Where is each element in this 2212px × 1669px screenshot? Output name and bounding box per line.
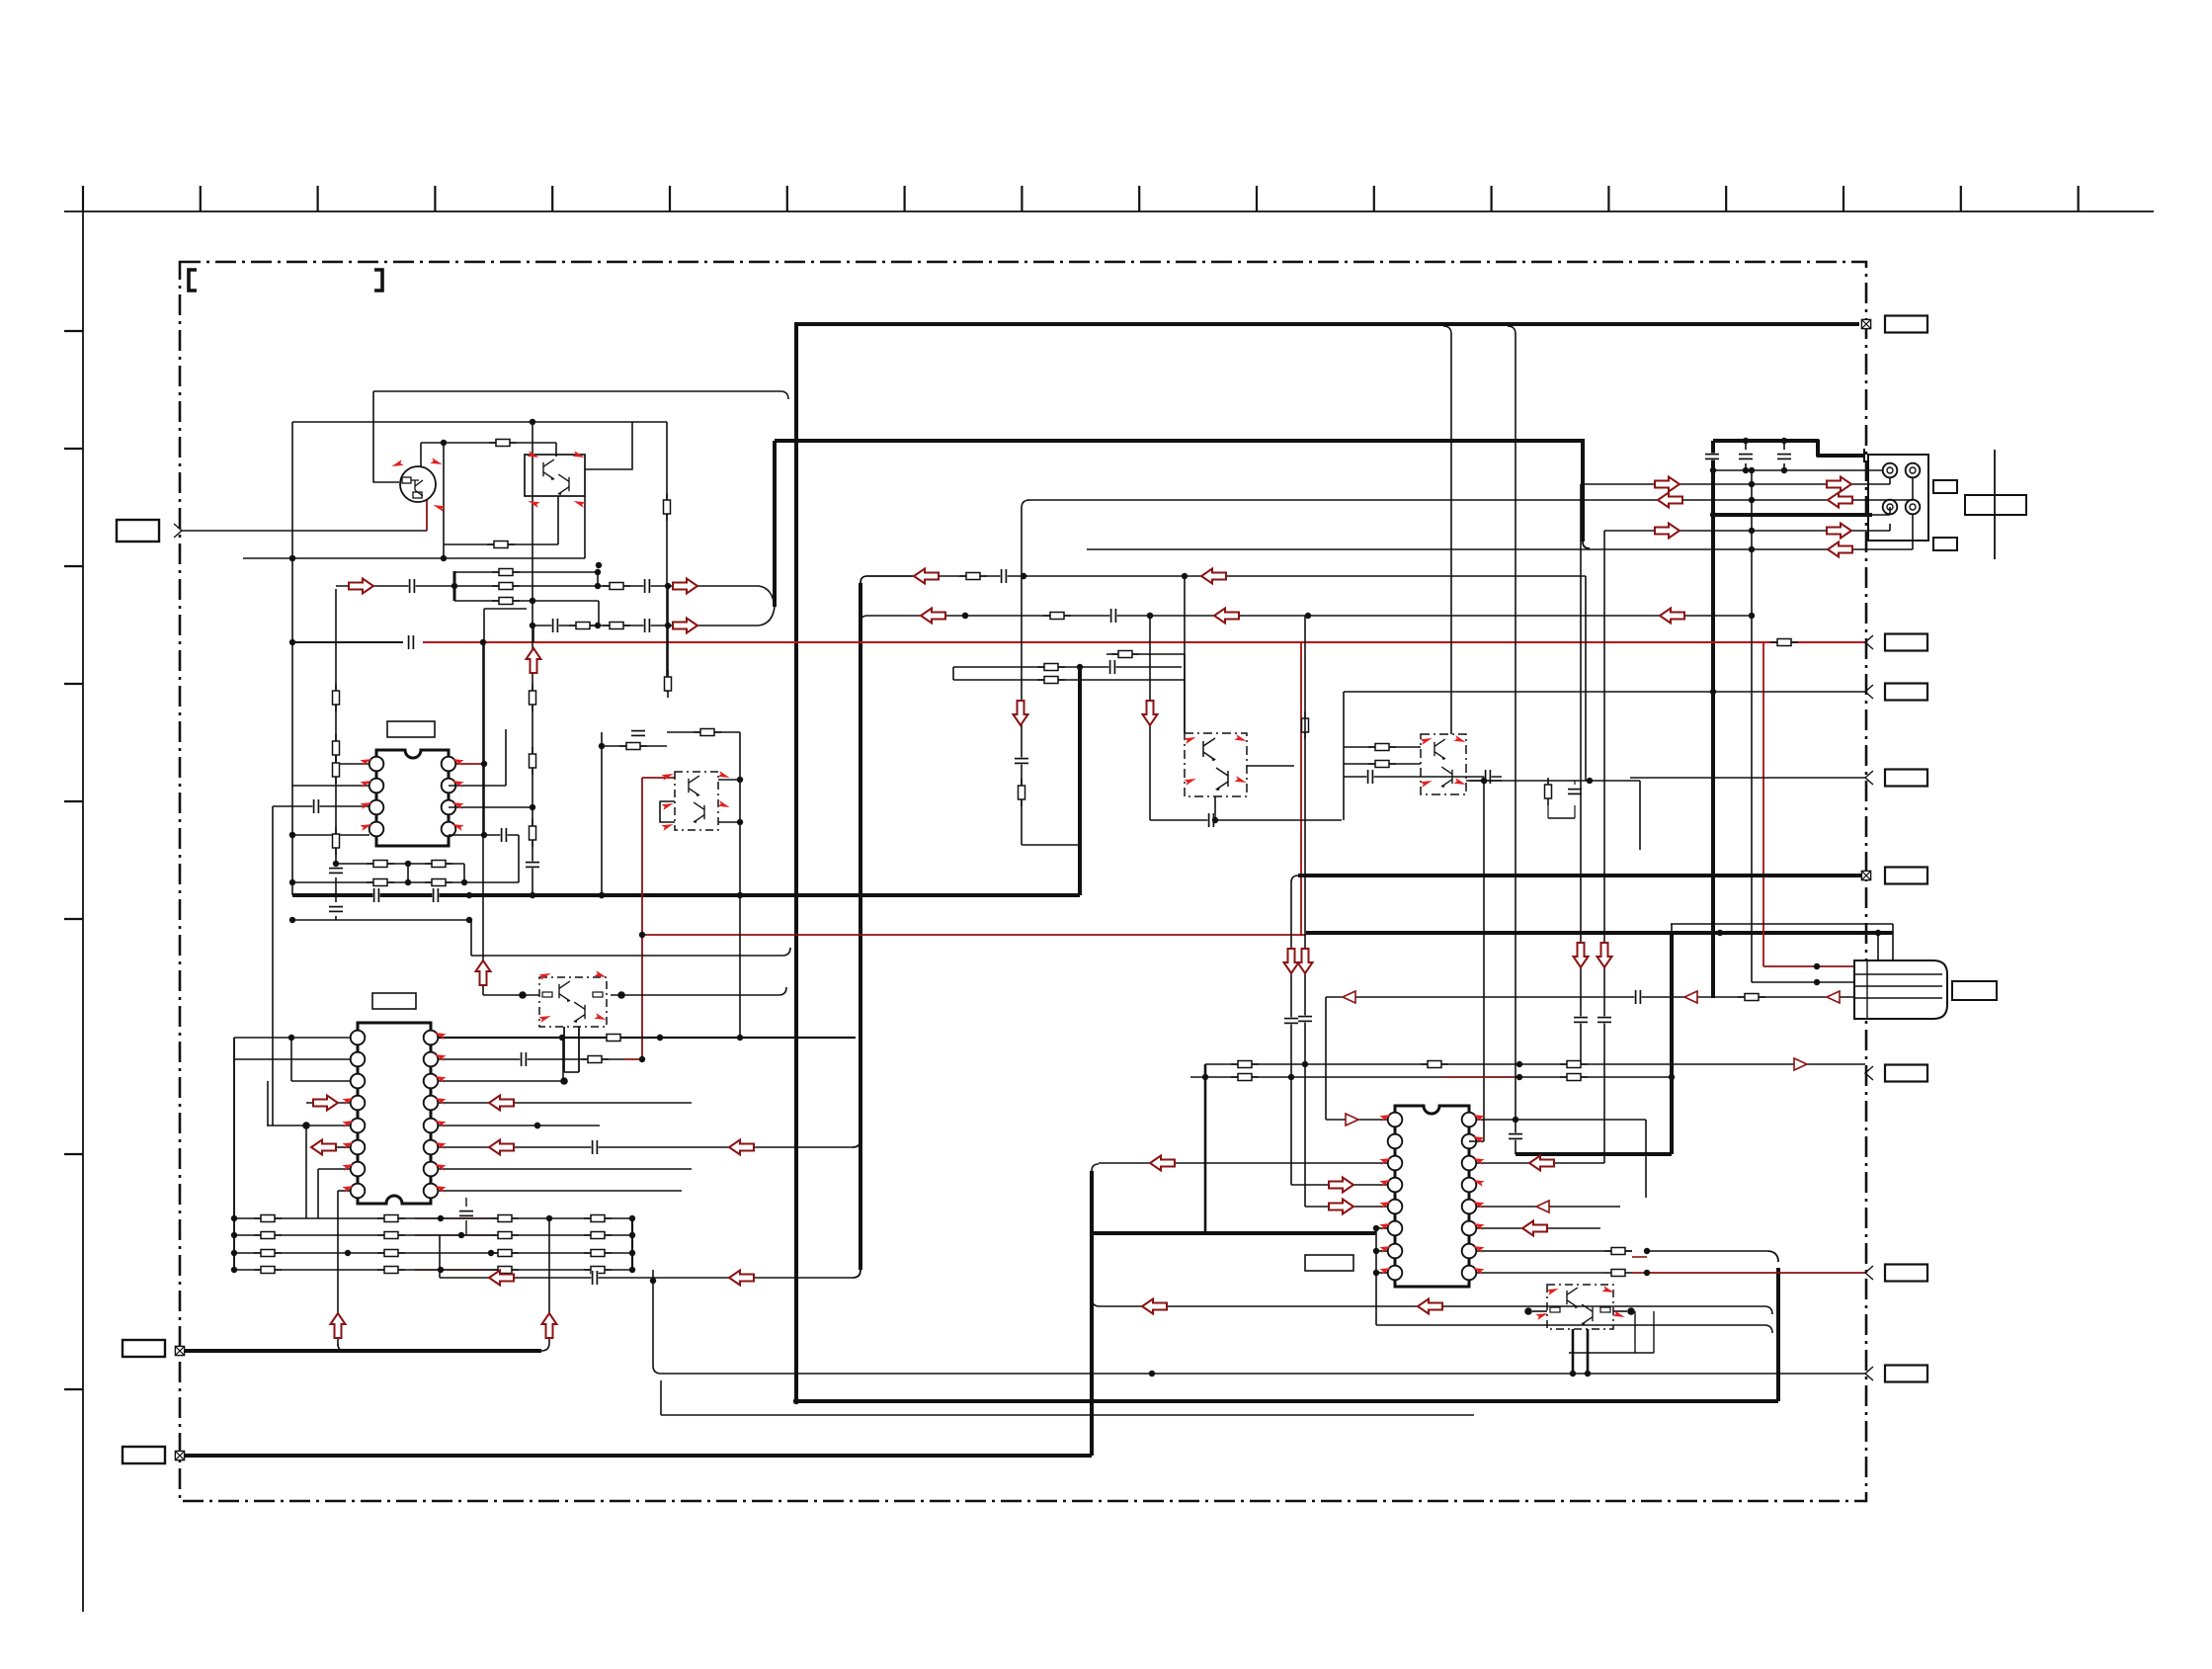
transistor pair Q108/Q109 box dashed (1185, 733, 1247, 796)
ruler top line (64, 210, 2154, 212)
arrow relay 490b (1827, 477, 1851, 492)
arrow row1322 b (1418, 1299, 1442, 1314)
IC201 pin 6 left (351, 1140, 366, 1155)
thick pair emitter drop A (1572, 1329, 1575, 1374)
vertical x1605 (1585, 576, 1587, 781)
ruler tick top (317, 186, 319, 211)
ladder row y1250 (234, 1234, 632, 1236)
wire IC301 pin14 (1476, 1162, 1604, 1164)
Q103 glyph (557, 474, 569, 495)
IC101 pin 7 right (442, 779, 456, 793)
cap bank lead c (1777, 453, 1791, 459)
thick bus wire second (775, 439, 1583, 443)
red pin indicator arrows (451, 756, 463, 766)
IC301 label box (1305, 1255, 1353, 1271)
cap bank lead a (1705, 453, 1719, 459)
vertical x1660 drop (1639, 781, 1641, 850)
motor terminal rail (1866, 960, 1868, 1019)
relay actuator stem (1994, 450, 1996, 559)
wire IC201 pin14 (438, 1080, 564, 1082)
wire IC301 pin3 long (1099, 1162, 1388, 1164)
wire row 755 with resistor (602, 745, 667, 747)
wire row 1369 (1569, 1352, 1654, 1354)
Q112 glyph (1567, 1288, 1579, 1308)
thick wire from CN left to riser (185, 1349, 541, 1353)
dot row1077 a (1302, 1061, 1308, 1067)
arrow up x540 (527, 648, 541, 673)
red stub to transistor pair (642, 777, 675, 779)
wire below bus (292, 919, 469, 921)
wire IC301 pin10 (1476, 1250, 1632, 1252)
arrow relay 506a (1658, 493, 1682, 508)
wire row 1077 to connector (1205, 1063, 1865, 1065)
wire row 830 (1150, 819, 1342, 821)
wire IC101 pin4 left (292, 834, 369, 836)
Q102 glyph (543, 459, 555, 480)
rc pair right of P7 (1469, 780, 1640, 782)
triangle motor row a (1684, 991, 1697, 1003)
Q101 collector wire (420, 443, 422, 466)
wire IC201 pin2 (234, 1058, 351, 1060)
relay row wire 506 long (1027, 499, 1913, 501)
IC201 pin 7 left (351, 1162, 366, 1177)
red stub IC1 pin1 (449, 763, 484, 765)
wire P1 lower loop (484, 608, 527, 610)
wire row 633 (533, 625, 759, 626)
triangle pin1 (1346, 1114, 1358, 1126)
terminal crossbox CN202 (1861, 871, 1870, 879)
red segment row IC2 (624, 1058, 642, 1060)
vertical x749 (739, 732, 741, 1038)
vertical branch x675 (666, 422, 668, 692)
wire IC101 pin7 right (449, 785, 506, 787)
Q101 inner glyph (402, 477, 411, 483)
wire to P7 a (1344, 746, 1421, 748)
wire row2 to border (1344, 691, 1865, 693)
node dots left rail (289, 555, 295, 561)
wire IC301 pin2R (1469, 1140, 1484, 1142)
wire IC201 pin10 (438, 1168, 692, 1170)
wire IC201 pin4 (306, 1102, 351, 1104)
ruler tick top (1607, 186, 1609, 211)
Q113 glyph (1581, 1304, 1593, 1325)
relay lead A (1889, 477, 1891, 484)
transistor pair Q110/Q111 box dashed (1421, 734, 1466, 794)
red vertical trunk mid (641, 778, 643, 1059)
resistor v4 (333, 827, 340, 855)
arrow up x489 (476, 960, 491, 985)
wire row 608 (454, 600, 599, 602)
board label bracket left (189, 270, 197, 291)
connector chevron red row (1865, 635, 1873, 649)
relay lead D (1912, 514, 1914, 549)
motor body (1854, 960, 1947, 1019)
IC101 pin 2 left (369, 779, 384, 793)
wire elbow at trunk B top (860, 576, 927, 583)
ground bus node dots (466, 892, 472, 898)
P6 right wire (611, 987, 786, 995)
thick relay feed step (1713, 441, 1863, 456)
red vertical branch B (1762, 642, 1764, 966)
connector chevron row6 (1865, 1367, 1873, 1380)
relay row wire 490 (1581, 483, 1890, 485)
vertical x570 (562, 1038, 564, 1081)
arrow pin11R (1522, 1221, 1547, 1236)
wire IC301 pin4 (1291, 1184, 1388, 1186)
IC201 pin 11 right (424, 1140, 439, 1155)
ladder row y1285 (234, 1269, 632, 1271)
transistor pair Q104/Q105 box dashed (675, 772, 718, 830)
connector box right R1 (1885, 634, 1927, 651)
thick vertical from ground bus (1078, 665, 1082, 895)
wire y396 horizontal (373, 391, 788, 399)
rail x276 long (272, 806, 274, 1126)
resistor v2 (333, 734, 340, 762)
wire row3 to border (1630, 777, 1865, 779)
wire IC201 pin16 (438, 1037, 856, 1039)
vertical feed motor mid (1751, 470, 1753, 982)
transistor pair Q102/Q103 box (525, 455, 585, 496)
terminal crossbox CN201 (1861, 319, 1870, 328)
arrow row623 right (1660, 609, 1684, 624)
connector terminal crossbox (175, 1451, 184, 1460)
wire IC101 pin8 right up (483, 609, 485, 835)
ruler tick top (1960, 186, 1962, 211)
trunk x1800 top curve (1768, 1251, 1778, 1262)
arrow row583 (914, 569, 939, 584)
thick vertical trunk B (859, 583, 862, 1270)
cap motor row (1634, 990, 1641, 1004)
P3 left dot (1524, 1307, 1532, 1315)
IC301 pin 8 left (1388, 1266, 1403, 1281)
wire row 1322 to trunk (1092, 1298, 1772, 1314)
P7 right side wire (1466, 780, 1502, 782)
red vertical branch A (1300, 642, 1302, 936)
P6 left dot (519, 991, 527, 999)
thick vertical relay trunk (1711, 441, 1715, 998)
IC101 pin 3 left (369, 800, 384, 815)
IC101 pin 8 right (442, 757, 456, 772)
vertical x676 down (667, 586, 669, 692)
thick bus wire top to CN101 (796, 322, 1859, 326)
arrow pin13 (489, 1096, 514, 1111)
vertical x540 down (533, 626, 534, 642)
IC301 pin 14 right (1462, 1156, 1477, 1171)
vertical feed B (1304, 616, 1306, 1207)
Q108 glyph (1203, 738, 1216, 761)
red segment IC3 row a (1632, 1256, 1647, 1258)
ruler tick left (64, 448, 83, 450)
vertical x271 (267, 1081, 269, 1126)
cap below bus (329, 905, 343, 912)
IC301 pin 7 left (1388, 1244, 1403, 1259)
resistor row623 (1043, 613, 1071, 620)
thick bus bottom horizontal (794, 1399, 1778, 1403)
wire row 565 (243, 557, 585, 559)
IC301 pin 12 right (1462, 1200, 1477, 1214)
resistor motor row (1738, 994, 1765, 1001)
Q107 glyph (573, 1002, 585, 1023)
wire IC101 pin2 left (292, 785, 369, 787)
P3 inner res b (1600, 1307, 1610, 1312)
wire row 623 (867, 615, 1752, 617)
thick trunk right x1800 (1776, 1268, 1780, 1401)
IC201 pin 2 left (351, 1052, 366, 1067)
arrow pin3L (1150, 1156, 1175, 1171)
red segment resistor row a (415, 1217, 491, 1219)
vertical pin8 to bus (337, 1191, 339, 1346)
triangle row1077 (1794, 1058, 1807, 1070)
wire IC201 pin8 (338, 1190, 351, 1192)
arrow row 593 right (673, 579, 697, 594)
wire IC101 pin5 right cap (449, 834, 519, 836)
dot row623 b (1147, 613, 1153, 619)
IC301 pin 6 left (1388, 1221, 1403, 1236)
IC301 pin 11 right (1462, 1221, 1477, 1236)
ruler tick top (1725, 186, 1727, 211)
arrow pin6 (311, 1140, 336, 1155)
red wire to connector row (1632, 1272, 1866, 1274)
thin riser to bus (1291, 876, 1298, 936)
Q109 glyph (1215, 768, 1228, 791)
IC201 pin 5 left (351, 1119, 366, 1133)
vertical x609 (601, 732, 603, 895)
connector chevron row3 (1865, 771, 1873, 785)
wire row 675 (953, 666, 1182, 668)
ruler tick left (64, 683, 83, 685)
corner 608 to 633 (598, 601, 600, 626)
wire IC101 pin1 left (336, 763, 369, 765)
resistor v1 (333, 684, 340, 711)
wire row935 elbow (1670, 923, 1672, 925)
vertical x965 (952, 667, 954, 680)
Q106 glyph (559, 981, 571, 1002)
dot row1090 b (1516, 1074, 1522, 1080)
red signal wire long horizontal (423, 641, 1866, 643)
wire x1034 to trunk (1022, 844, 1080, 846)
P2 top right wire (718, 779, 740, 781)
IC301 pin 3 left (1388, 1156, 1403, 1171)
IC301 pin 9 right (1462, 1266, 1477, 1281)
motor row component wire (1326, 996, 1854, 998)
wire IC301 pin9 (1476, 1272, 1604, 1274)
IC101 label box (387, 721, 435, 737)
arrow pin11 b (729, 1140, 754, 1155)
resistor chain vertical (335, 589, 337, 856)
ruler tick left (64, 565, 83, 567)
arrow row583 mid (1201, 569, 1226, 584)
ruler tick top (1021, 186, 1023, 211)
x1034 chain vertical (1021, 508, 1023, 845)
thick bus wire to CN202 (1298, 874, 1861, 877)
arrow pin4L (1329, 1178, 1353, 1193)
red segment resistor row b (415, 1234, 491, 1236)
ladder row y1233 (234, 1217, 632, 1219)
red vertical at Q101 (426, 500, 428, 531)
dot row1390 left (1149, 1371, 1155, 1377)
vertical x1342 (1325, 997, 1327, 1120)
corner pin5 row down (518, 835, 520, 882)
IC301 pin 1 left (1388, 1113, 1403, 1127)
IC201 label box (372, 993, 416, 1009)
P5 right wire (1247, 765, 1294, 767)
vertical red-branch to P6 (482, 642, 484, 995)
Q104 glyph (689, 776, 700, 796)
cap pair on ground bus (372, 888, 379, 902)
motor winding line 3 (1854, 997, 1942, 999)
vertical x310 (305, 1126, 307, 1218)
IC201 pin 16 right (424, 1031, 439, 1045)
arrow up x556 (542, 1313, 557, 1338)
thick ground bus mid-left (292, 893, 1080, 897)
thick wire IC3 pin6 feed (1092, 1231, 1376, 1235)
wire IC201 pin15 (438, 1058, 624, 1060)
arrow row 593 left (349, 579, 373, 594)
cap on x1600 (1574, 1016, 1588, 1023)
Q105 glyph (693, 802, 704, 823)
motor top wire (1671, 923, 1893, 925)
wire P1 bottom leads (557, 496, 559, 544)
IC301 pin 10 right (1462, 1244, 1477, 1259)
wire elbow trunk C top (1092, 1164, 1099, 1171)
thick vertical motor side (1670, 935, 1674, 1154)
IC201 body (358, 1023, 431, 1204)
resistor on x675 (664, 493, 671, 521)
relay terminal B (1906, 463, 1921, 478)
resistor row1077 c (1560, 1061, 1588, 1068)
vertical x1220 (1204, 1064, 1207, 1235)
wire row 551 (444, 543, 558, 545)
resistor row1090 a (1231, 1074, 1259, 1081)
dot row623 a (962, 613, 968, 619)
red wire resistor near border (1770, 639, 1798, 646)
rc pair stubs (1547, 781, 1549, 785)
trunk B bottom curve to row (853, 1270, 860, 1278)
wire IC301 pin12 (1476, 1206, 1620, 1208)
cap on x1624 (1598, 1016, 1611, 1023)
vertical x1393 (1375, 1228, 1377, 1325)
thick vertical to relay rows (1581, 439, 1585, 542)
left rail vertical (291, 422, 293, 895)
relay aux box a (1933, 480, 1957, 493)
P2 left loop (660, 801, 675, 822)
resistor x1034 (1019, 779, 1025, 806)
arrow down x1034 (1014, 701, 1028, 725)
P3 left wire (1532, 1310, 1547, 1312)
vertical x445 (439, 1235, 441, 1278)
connector box right R5 (1885, 1265, 1927, 1282)
row633 curve to bus stub (759, 607, 775, 626)
cap on x1321 (1298, 1015, 1312, 1022)
resistor v3 (333, 756, 340, 784)
relay feed end tick (1863, 449, 1865, 462)
P1 top lead (555, 443, 557, 457)
thin vertical x1534 long (1508, 326, 1516, 1120)
vertical x449 (443, 443, 445, 558)
transistor pair Q112/Q113 box dashed (1547, 1285, 1613, 1329)
wire IC101 pin3 left cap (273, 805, 369, 807)
IC201 pin 1 left (351, 1031, 366, 1045)
wire row 741 (667, 731, 740, 733)
relay aux box b (1933, 538, 1957, 550)
relay terminal C (1883, 500, 1898, 515)
motor top stub b (1892, 924, 1894, 960)
wire P1 top right (585, 422, 632, 469)
relay row wire 537 (1604, 530, 1890, 532)
vertical x661 (652, 1270, 654, 1366)
connector CN402 box left (123, 1340, 165, 1357)
ruler tick top (1138, 186, 1140, 211)
IC201 pin 14 right (424, 1074, 439, 1089)
ruler tick top (903, 186, 905, 211)
wire y967 ground link (471, 948, 790, 956)
wire row 1296 (440, 1277, 853, 1279)
dot x1220 (1202, 1074, 1208, 1080)
vertical link 1390-1432 (660, 1380, 662, 1415)
arrow row623 (921, 609, 945, 624)
junction dots misc (1021, 573, 1026, 579)
ruler tick left (64, 800, 83, 802)
arrow down x1164 (1143, 701, 1158, 725)
thick bus vertical left trunk (794, 322, 798, 1401)
wire y427 horizontal (292, 421, 667, 423)
elbow x669 (653, 1366, 661, 1374)
P6 emitter drops (563, 1027, 565, 1072)
IC301 body (1395, 1106, 1469, 1287)
wire IC301 pin5 (1305, 1206, 1388, 1208)
relay lead C join (1872, 514, 1890, 516)
resistor row583 (959, 573, 987, 580)
wire row 579 (454, 571, 598, 573)
row623 elbow trunkB (860, 616, 867, 623)
thick pair emitter drop B (1587, 1329, 1590, 1374)
wire IC201 pin1 (234, 1037, 351, 1039)
vertical x470 join (463, 864, 465, 882)
ruler tick top (1843, 186, 1844, 211)
wire elbow rise (541, 1309, 549, 1351)
ruler tick top (434, 186, 436, 211)
elbow pin8 bus (338, 1344, 345, 1351)
connector box right R2 (1885, 684, 1927, 701)
arrow row623 b (1214, 609, 1239, 624)
ruler tick left (64, 1388, 83, 1390)
wire IC201 pin13 (438, 1102, 692, 1104)
dot row1090 c (1669, 1074, 1675, 1080)
vertical x512 up (505, 729, 507, 786)
relay row wire 476 (1712, 469, 1883, 471)
cap near pin9 (459, 1210, 473, 1216)
vertical feed A (1290, 936, 1292, 1185)
cap row623 (1109, 609, 1116, 623)
resistor row1077 b (1421, 1061, 1448, 1068)
P6 inner resistors (542, 992, 552, 997)
row593 curve to bus stub (759, 586, 775, 607)
triangle motor row c (1343, 991, 1355, 1003)
red bus horizontal (642, 934, 1306, 936)
connector chevron row2 (1865, 685, 1873, 699)
connector chevron row5 red (1865, 1266, 1873, 1280)
P3 right dot (1627, 1307, 1635, 1315)
wire black left of cap (292, 641, 403, 643)
connector box right R3 (1885, 770, 1927, 787)
wire row 1341 to trunk (1376, 1325, 1772, 1333)
IC201 pin 3 left (351, 1074, 366, 1089)
board outline dash-dot border (180, 262, 1866, 1501)
arrow down x1600 (1574, 943, 1589, 967)
IC101 pin 4 left (369, 822, 384, 837)
dot row623 c (1305, 613, 1311, 619)
arrow relay 556 (1828, 542, 1852, 557)
